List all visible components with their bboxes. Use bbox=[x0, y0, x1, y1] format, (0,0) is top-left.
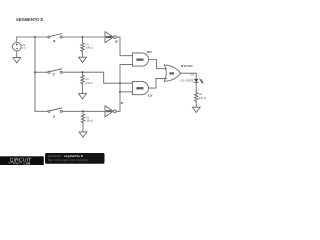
junction bus row2 bbox=[34, 71, 36, 73]
resistor R2 bbox=[81, 72, 93, 93]
wire NOT1 output to AND1 top input bbox=[116, 37, 132, 56]
watermark CircuitLab logo bbox=[0, 156, 44, 165]
NOT gate NOT2 bbox=[105, 106, 116, 117]
wire top rail bbox=[17, 36, 48, 38]
ground under R1 bbox=[79, 57, 87, 62]
junction D' branch bbox=[119, 91, 121, 93]
svg-text:5 V: 5 V bbox=[22, 47, 26, 50]
wire switch D to NOT2 bbox=[63, 110, 106, 112]
svg-text:LTL-307EE: LTL-307EE bbox=[180, 79, 194, 82]
ground under V1 bbox=[13, 58, 21, 63]
wire AND2 output to OR1 bottom input bbox=[149, 78, 166, 88]
NOT gate NOT1 bbox=[105, 32, 116, 43]
svg-text:330 Ω: 330 Ω bbox=[86, 82, 93, 85]
svg-text:jmontejo : segmento E: jmontejo : segmento E bbox=[47, 154, 83, 158]
wire V1 top to rail bbox=[16, 37, 18, 42]
LED D1 bbox=[180, 73, 203, 83]
node R3 junction bbox=[82, 110, 84, 112]
ground under R2 bbox=[79, 94, 87, 99]
svg-text:SEGMENTO E: SEGMENTO E bbox=[16, 17, 43, 22]
wire C step down to AND2 top input bbox=[104, 72, 133, 83]
svg-text:http://circuitlab.com/c/7pq3mh: http://circuitlab.com/c/7pq3mh bbox=[48, 159, 89, 162]
switch D bbox=[48, 108, 62, 119]
wire V1 bottom stub bbox=[16, 51, 18, 58]
wire AND1 output to OR1 top input bbox=[149, 60, 166, 69]
left bus wire bbox=[34, 37, 36, 111]
svg-text:LAB: LAB bbox=[24, 161, 32, 165]
AND gate AND2 bbox=[132, 82, 148, 95]
wire switch C to step bbox=[63, 71, 104, 73]
svg-text:B': B' bbox=[115, 39, 118, 43]
svg-text:D1: D1 bbox=[191, 73, 195, 76]
voltage source V1 bbox=[12, 42, 26, 51]
switch B bbox=[48, 34, 62, 44]
svg-text:R2: R2 bbox=[86, 78, 90, 81]
switch C bbox=[48, 69, 62, 77]
junction bus top bbox=[34, 36, 36, 38]
svg-text:B'D': B'D' bbox=[147, 50, 153, 54]
wire switch B to NOT1 bbox=[63, 36, 106, 38]
svg-text:330 Ω: 330 Ω bbox=[86, 120, 93, 123]
OR gate OR1 bbox=[164, 65, 181, 81]
resistor R1 bbox=[81, 37, 93, 57]
svg-text:330 Ω: 330 Ω bbox=[199, 97, 206, 100]
wire bus to switch C bbox=[35, 71, 48, 73]
svg-text:CD': CD' bbox=[148, 93, 153, 97]
junction C crossing bbox=[119, 82, 121, 84]
wire OR1 output to LED bbox=[181, 73, 197, 79]
svg-text:330 Ω: 330 Ω bbox=[86, 46, 93, 49]
node R2 junction bbox=[81, 71, 83, 73]
resistor R4 bbox=[195, 93, 206, 108]
watermark caption box bbox=[45, 153, 105, 164]
wire LED cathode to R4 bbox=[195, 82, 197, 92]
resistor R3 bbox=[81, 111, 93, 132]
ground under R3 bbox=[79, 132, 87, 137]
node R1 junction bbox=[81, 36, 83, 38]
svg-text:R4: R4 bbox=[199, 93, 203, 96]
ground under R4 bbox=[192, 107, 200, 112]
AND gate AND1 bbox=[132, 53, 148, 66]
svg-text:D': D' bbox=[121, 101, 124, 105]
wire branch to AND2 bottom input bbox=[120, 91, 132, 93]
wire bus corner to switch D bbox=[35, 110, 48, 112]
wire NOT2 output up to AND1 bottom input bbox=[116, 65, 132, 112]
svg-text:B'D'+CD': B'D'+CD' bbox=[181, 64, 193, 68]
